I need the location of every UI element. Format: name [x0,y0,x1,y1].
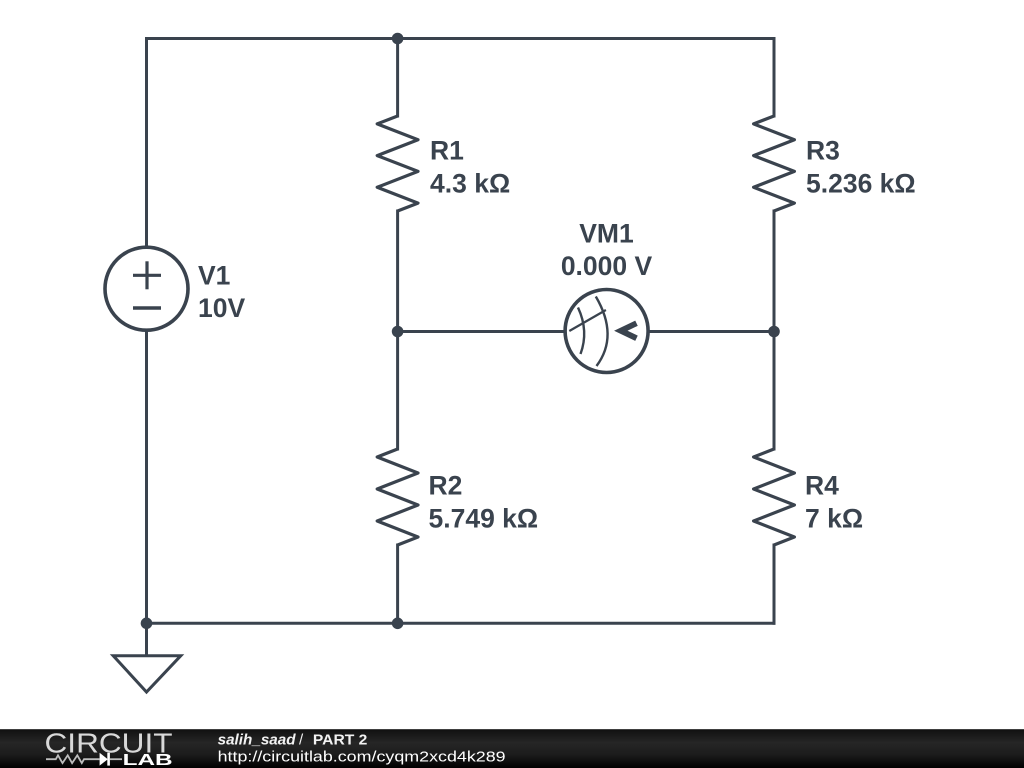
wire branch A middle lead (R1 to middle node) [396,211,399,449]
node bottom left (ground junction) [141,618,153,630]
node bottom middle (R2/bottom wire junction) [392,618,404,630]
label R4 [805,471,863,534]
resistor R4 [754,449,795,545]
svg-text:R1: R1 [430,135,464,165]
wire top horizontal [147,37,775,40]
wire branch A lower lead (R2 to bottom wire) [396,545,399,623]
svg-text:R3: R3 [806,135,840,165]
wire left vertical (top half to V1) [145,39,148,248]
svg-text:0.000 V: 0.000 V [561,251,653,281]
svg-text:PART 2: PART 2 [313,732,368,749]
label R1 [430,135,510,198]
svg-text:5.236 kΩ: 5.236 kΩ [806,168,916,198]
wire branch B upper lead (top wire to R3) [773,39,776,117]
node middle left (R1/R2/VM1 junction) [392,326,404,338]
wire middle horizontal (bridge through VM1) [398,330,774,333]
svg-text:R2: R2 [429,471,463,501]
wire bottom horizontal [147,622,775,625]
wire left vertical (V1 to bottom) [145,331,148,624]
wire branch B lower lead (R4 to bottom wire) [773,545,776,623]
resistor R2 [377,449,418,545]
svg-text:VM1: VM1 [579,219,634,249]
wire branch B middle lead (R3 to R4) [773,211,776,449]
logo diode [100,753,108,766]
node top (R1/top wire junction) [392,33,404,45]
label R2 [429,471,539,534]
svg-text:4.3 kΩ: 4.3 kΩ [430,168,510,198]
voltmeter VM1 [565,290,648,373]
label V1 [198,260,245,323]
svg-text:R4: R4 [805,471,839,501]
label VM1 [561,219,653,281]
resistor R1 [377,116,418,211]
svg-text:7 kΩ: 7 kΩ [805,504,863,534]
resistor R3 [754,116,795,211]
svg-text:10V: 10V [198,293,245,323]
voltage source V1 [105,247,188,330]
svg-text:salih_saad: salih_saad [218,732,297,749]
svg-text:5.749 kΩ: 5.749 kΩ [429,504,539,534]
ground [113,656,181,692]
svg-text:LAB: LAB [123,752,173,768]
logo squiggle wire with resistor [46,755,100,763]
svg-text:V1: V1 [198,260,230,290]
wire ground stem [145,623,148,655]
wire branch A upper lead (top wire to R1) [396,39,399,117]
node middle right (R3/R4/VM1 junction) [768,326,780,338]
label R3 [806,135,916,198]
svg-text:http://circuitlab.com/cyqm2xcd: http://circuitlab.com/cyqm2xcd4k289 [218,748,506,765]
